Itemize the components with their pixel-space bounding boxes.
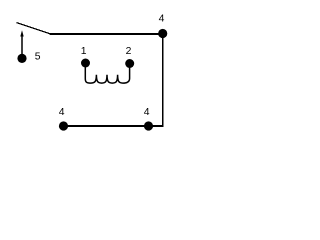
svg-text:4: 4: [159, 14, 165, 25]
svg-text:5: 5: [35, 52, 41, 63]
node 5 terminal dot: [17, 54, 26, 63]
wire right vertical: [162, 34, 164, 127]
node 4 bottom-right junction dot: [144, 121, 153, 130]
switch SW arm (movable contact): [17, 23, 51, 34]
relay coil L1: [85, 66, 129, 83]
svg-text:2: 2: [126, 46, 132, 57]
svg-text:4: 4: [59, 107, 65, 118]
node 4 top terminal dot: [158, 29, 167, 38]
wire bottom horizontal: [64, 125, 164, 127]
svg-text:1: 1: [81, 46, 87, 57]
wire top horizontal: [49, 33, 163, 35]
svg-text:4: 4: [144, 107, 150, 118]
node 2 coil terminal dot: [125, 59, 134, 68]
node 1 coil terminal dot: [81, 59, 90, 68]
switch actuator arrow: [20, 30, 23, 55]
node 4 bottom-left terminal dot: [59, 121, 68, 130]
